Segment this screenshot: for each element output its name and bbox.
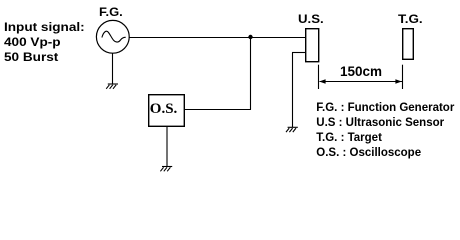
label F.G. [99, 5, 123, 19]
FG sine wave [102, 31, 126, 42]
arrowhead right [395, 79, 401, 84]
label T.G. [398, 12, 423, 26]
dimension extension line right [402, 65, 404, 89]
dimension arrow line 150cm [320, 81, 403, 83]
wire FG output to US sensor [129, 37, 305, 39]
ground symbol under US wire [286, 127, 298, 132]
function generator FG circle [96, 20, 129, 53]
wire US to ground (horizontal) [292, 52, 306, 54]
wire US to ground (vertical) [292, 53, 294, 128]
oscilloscope box label O.S. [150, 101, 178, 118]
ground symbol under OS [160, 167, 172, 172]
ground symbol under FG [106, 84, 118, 89]
dimension label 150cm [340, 64, 382, 79]
wire FG to ground [112, 53, 114, 84]
annotation: input signal text [4, 21, 85, 67]
ultrasonic sensor box US [306, 29, 319, 62]
legend text [316, 101, 454, 161]
wire junction down [250, 37, 252, 110]
junction node dot [248, 35, 252, 39]
dimension extension line left [318, 65, 320, 89]
label U.S. [298, 12, 324, 26]
target box TG [403, 29, 414, 60]
wire to oscilloscope input [185, 109, 252, 111]
wire OS to ground [166, 127, 168, 167]
arrowhead left [319, 79, 325, 84]
oscilloscope box OS [149, 95, 185, 127]
